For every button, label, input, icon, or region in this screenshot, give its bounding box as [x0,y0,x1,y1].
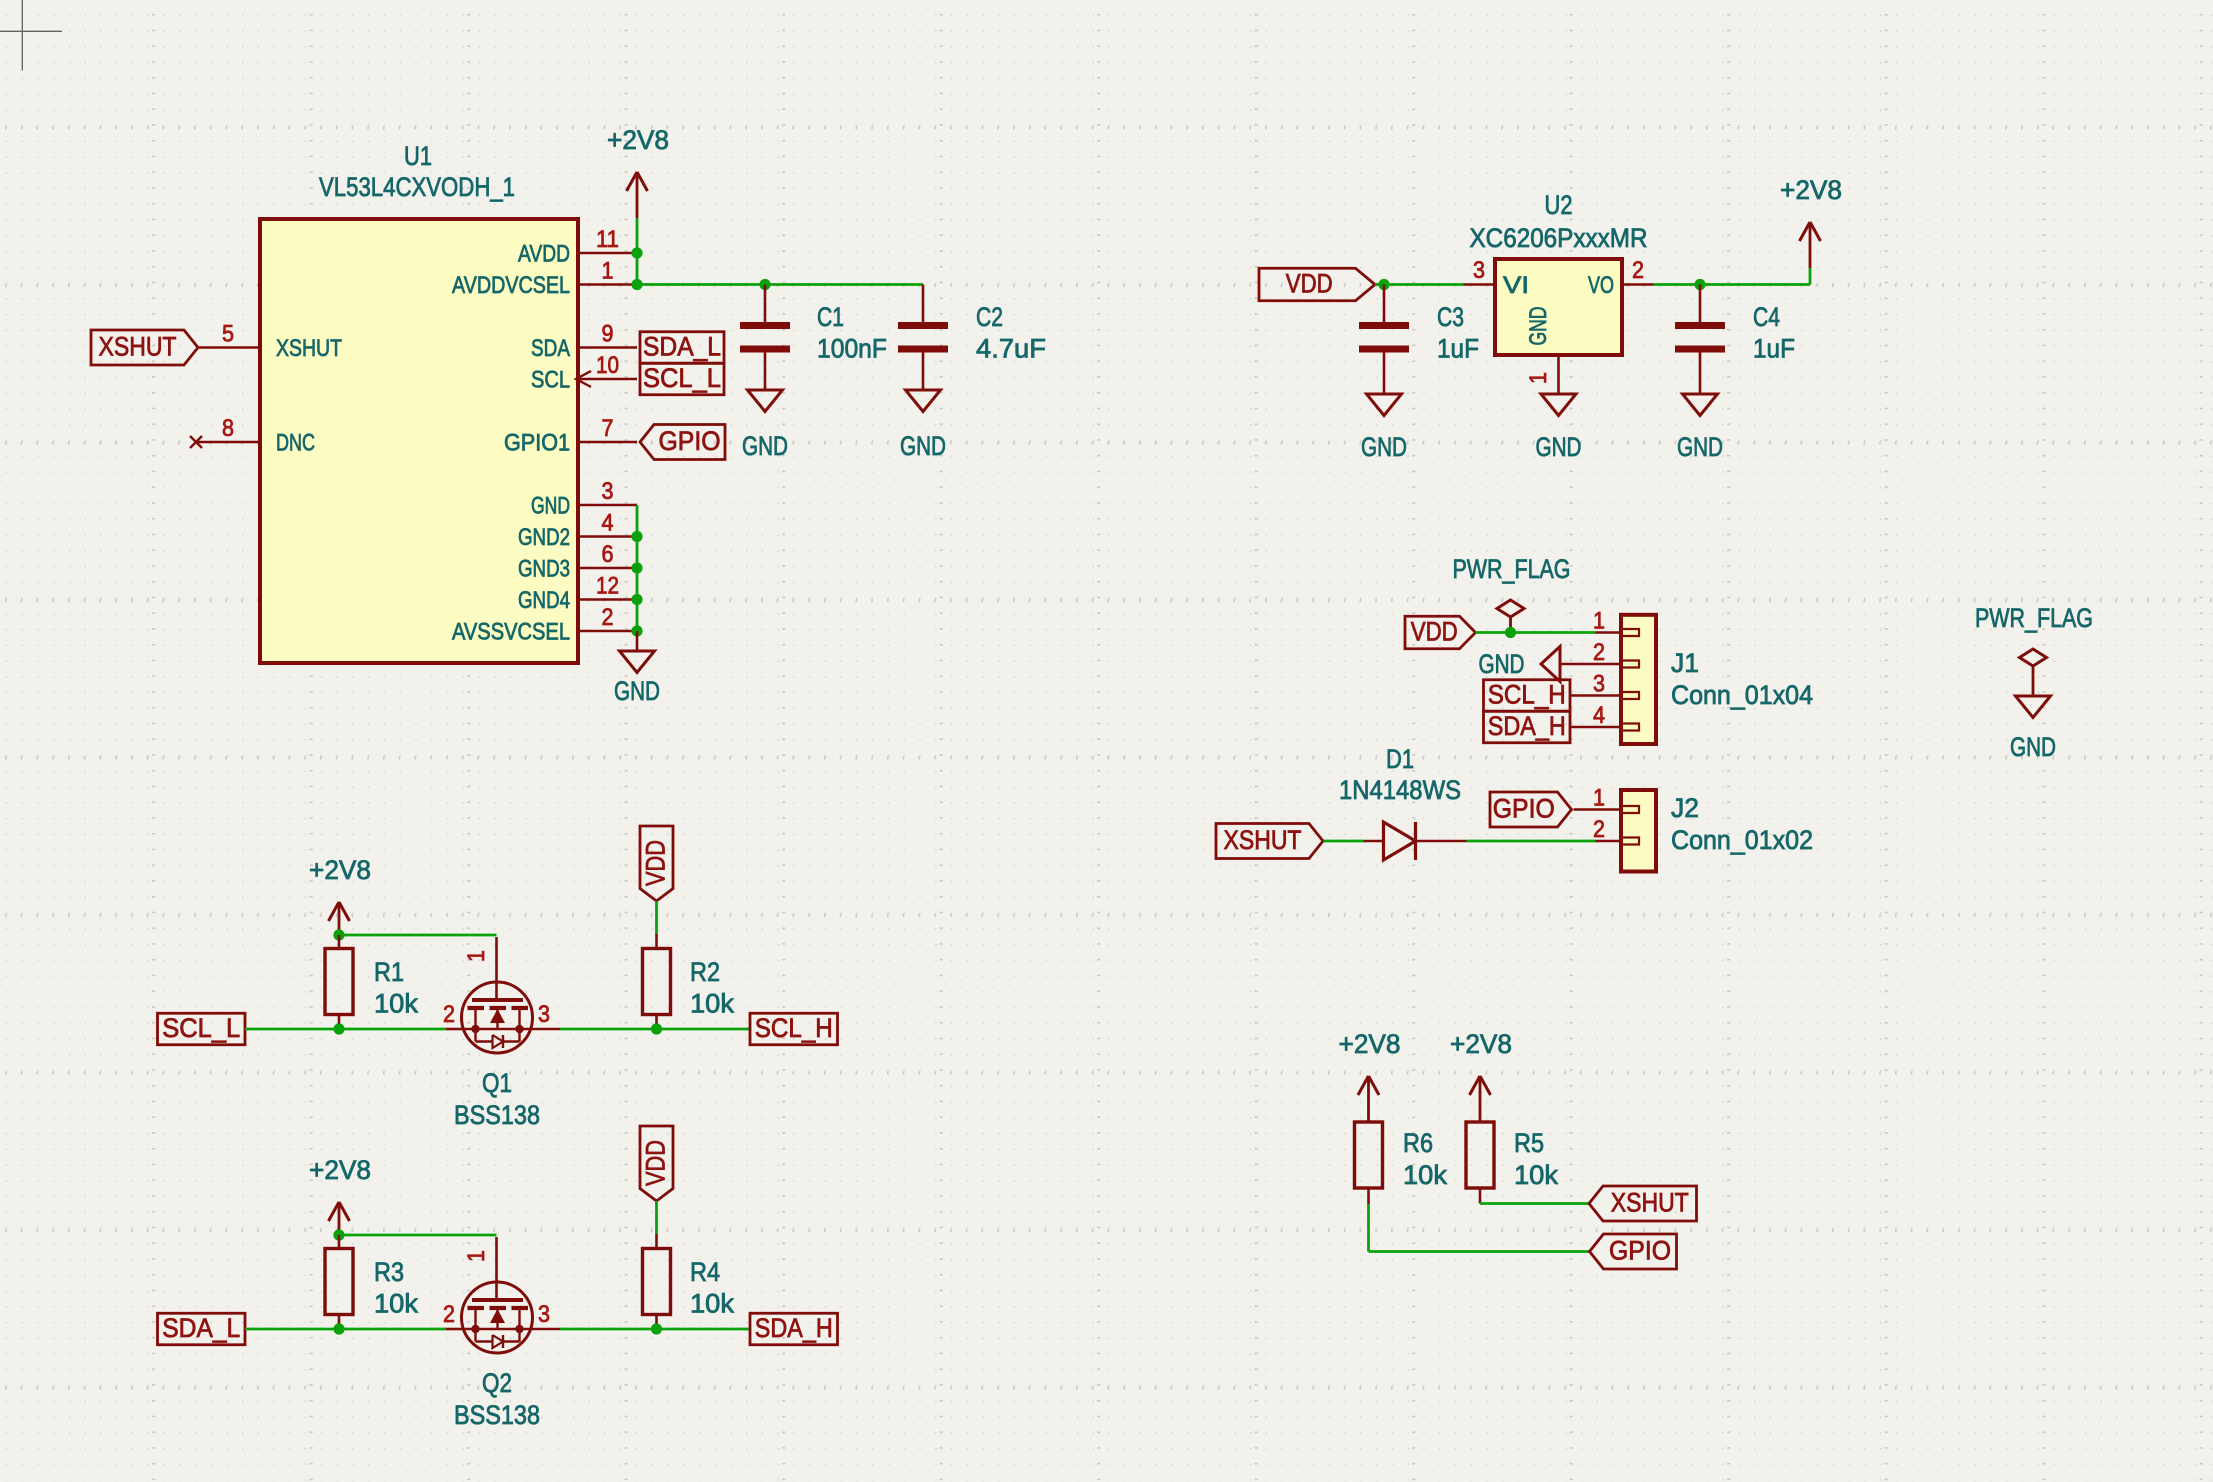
svg-text:Q1: Q1 [482,1068,512,1098]
svg-text:+2V8: +2V8 [309,1155,371,1185]
svg-text:SDA_H: SDA_H [755,1313,833,1343]
svg-text:1: 1 [1593,785,1605,812]
svg-text:3: 3 [1593,671,1605,698]
svg-text:SCL: SCL [531,367,570,394]
svg-text:10k: 10k [374,989,418,1019]
svg-text:GND: GND [1525,307,1552,346]
svg-text:10k: 10k [1514,1160,1558,1190]
svg-text:C3: C3 [1437,302,1464,332]
svg-text:VL53L4CXVODH_1: VL53L4CXVODH_1 [319,172,515,202]
svg-text:BSS138: BSS138 [454,1100,540,1130]
svg-text:C1: C1 [817,302,844,332]
svg-text:R3: R3 [374,1257,404,1287]
svg-text:DNC: DNC [276,430,315,457]
svg-text:PWR_FLAG: PWR_FLAG [1453,554,1571,584]
svg-text:SDA: SDA [531,335,570,362]
svg-text:XSHUT: XSHUT [1224,825,1302,855]
svg-text:+2V8: +2V8 [309,855,371,885]
svg-text:10k: 10k [1403,1160,1447,1190]
svg-text:VDD: VDD [641,840,671,886]
svg-text:R4: R4 [690,1257,720,1287]
svg-text:+2V8: +2V8 [1450,1029,1512,1059]
svg-text:GPIO: GPIO [659,426,721,456]
svg-text:4: 4 [1593,702,1605,729]
svg-text:3: 3 [602,478,614,505]
svg-text:GND: GND [531,493,570,520]
svg-text:10: 10 [596,352,619,379]
svg-text:1: 1 [463,950,490,962]
svg-text:10k: 10k [690,1289,734,1319]
svg-text:R1: R1 [374,957,404,987]
svg-text:XSHUT: XSHUT [1611,1188,1689,1218]
svg-text:U1: U1 [404,141,432,171]
svg-text:GND: GND [1361,432,1407,462]
svg-text:GND3: GND3 [518,556,570,583]
svg-text:AVDD: AVDD [518,241,570,268]
svg-text:SCL_H: SCL_H [1488,680,1566,710]
svg-text:10k: 10k [690,989,734,1019]
svg-text:GND: GND [742,431,788,461]
svg-text:PWR_FLAG: PWR_FLAG [1975,603,2093,633]
svg-text:9: 9 [602,321,614,348]
svg-text:U2: U2 [1545,190,1573,220]
svg-text:GND2: GND2 [518,524,570,551]
svg-text:GND: GND [1479,649,1525,679]
svg-text:1: 1 [463,1250,490,1262]
svg-text:+2V8: +2V8 [1339,1029,1401,1059]
svg-text:XC6206PxxxMR: XC6206PxxxMR [1470,223,1648,253]
svg-text:2: 2 [443,1001,455,1028]
svg-text:R5: R5 [1514,1128,1544,1158]
svg-text:5: 5 [222,321,234,348]
svg-text:XSHUT: XSHUT [276,335,342,362]
svg-text:4: 4 [602,510,614,537]
svg-text:8: 8 [222,415,234,442]
svg-text:SDA_H: SDA_H [1488,711,1566,741]
svg-text:GND: GND [614,676,660,706]
svg-text:SDA_L: SDA_L [162,1313,240,1343]
svg-text:4.7uF: 4.7uF [976,334,1046,364]
svg-text:SCL_H: SCL_H [755,1013,833,1043]
svg-text:GND: GND [1677,432,1723,462]
svg-text:+2V8: +2V8 [607,125,669,155]
svg-text:11: 11 [596,226,619,253]
svg-text:AVDDVCSEL: AVDDVCSEL [452,272,570,299]
svg-text:100nF: 100nF [817,334,887,364]
svg-text:VO: VO [1588,272,1614,299]
svg-text:R6: R6 [1403,1128,1433,1158]
svg-text:GND: GND [2010,732,2056,762]
svg-text:J2: J2 [1671,793,1699,823]
svg-text:10k: 10k [374,1289,418,1319]
svg-text:3: 3 [1473,257,1485,284]
svg-text:VI: VI [1503,272,1529,299]
svg-text:3: 3 [538,1301,550,1328]
svg-text:SCL_L: SCL_L [162,1013,240,1043]
svg-text:1: 1 [1593,608,1605,635]
svg-text:2: 2 [1593,639,1605,666]
svg-text:AVSSVCSEL: AVSSVCSEL [452,619,570,646]
svg-text:7: 7 [602,415,614,442]
svg-text:GND4: GND4 [518,587,570,614]
svg-text:C4: C4 [1753,302,1780,332]
svg-text:1: 1 [602,258,614,285]
svg-text:GND: GND [1536,432,1582,462]
svg-text:1uF: 1uF [1437,334,1479,364]
svg-text:R2: R2 [690,957,720,987]
svg-text:2: 2 [1593,816,1605,843]
svg-text:3: 3 [538,1001,550,1028]
svg-text:GPIO1: GPIO1 [504,430,570,457]
svg-text:J1: J1 [1671,648,1699,678]
svg-text:VDD: VDD [1286,269,1333,299]
svg-text:12: 12 [596,573,619,600]
svg-text:2: 2 [1632,257,1644,284]
svg-text:D1: D1 [1386,744,1414,774]
svg-text:SCL_L: SCL_L [643,363,721,393]
svg-text:C2: C2 [976,302,1003,332]
svg-text:GND: GND [900,431,946,461]
svg-text:Q2: Q2 [482,1368,512,1398]
svg-text:GPIO: GPIO [1609,1236,1671,1266]
svg-text:GPIO: GPIO [1493,794,1555,824]
svg-text:6: 6 [602,541,614,568]
svg-text:1uF: 1uF [1753,334,1795,364]
svg-text:+2V8: +2V8 [1780,175,1842,205]
svg-text:2: 2 [443,1301,455,1328]
svg-text:BSS138: BSS138 [454,1400,540,1430]
svg-text:SDA_L: SDA_L [643,332,721,362]
svg-text:VDD: VDD [641,1140,671,1186]
svg-text:2: 2 [602,604,614,631]
svg-text:Conn_01x02: Conn_01x02 [1671,825,1813,855]
svg-text:1N4148WS: 1N4148WS [1339,775,1461,805]
svg-text:1: 1 [1525,372,1552,384]
svg-text:VDD: VDD [1411,617,1458,647]
svg-text:XSHUT: XSHUT [99,332,177,362]
svg-text:Conn_01x04: Conn_01x04 [1671,680,1813,710]
